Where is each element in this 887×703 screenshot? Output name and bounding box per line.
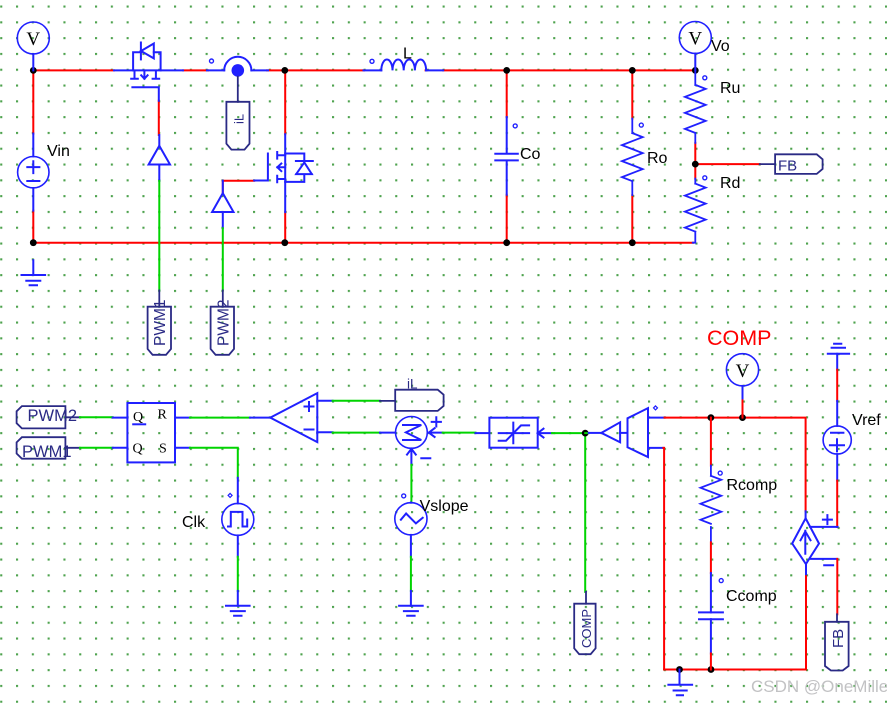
wire R to comparator green [190,417,250,419]
wire Vref upper red [836,370,838,401]
wire diamond minus to FB red [836,559,838,614]
wire bottom rail [33,242,693,244]
wire COMP rail red [665,418,806,512]
error amp trapezoid [628,408,665,457]
wire Q2 source red [284,212,286,243]
wire left rail Vin [32,70,34,243]
buffer triangle [589,422,628,442]
wire top rail red segments [33,69,695,71]
wire Q2 drain red [284,70,286,134]
svg-text:V: V [736,361,750,382]
wire junction to COMP tag green [584,433,586,592]
svg-text:PWM2: PWM2 [216,300,233,347]
mosfet Q1 [114,43,183,101]
resistor Rcomp [710,418,712,466]
comparator [250,393,333,442]
svg-text:R: R [158,408,168,423]
svg-text:FB: FB [778,158,797,175]
inductor L [364,59,444,70]
wire S to Clk green [190,448,238,478]
wire PWM2 green [222,228,224,290]
PWM2 tag horizontal [17,406,80,428]
wire comparator minus green [333,432,380,434]
svg-text:L: L [403,46,412,63]
svg-text:Ccomp: Ccomp [726,588,777,605]
node marker near sensor [210,59,214,63]
FB tag right [760,163,775,165]
wire Vref to diamond red [836,481,838,527]
svg-text:CSDN @OneMillet: CSDN @OneMillet [751,677,887,696]
svg-text:Q: Q [133,410,143,425]
ground under Vslope [399,591,423,616]
wire error amp lower red [662,448,665,670]
wire bottom rail right red [664,669,806,671]
svg-text:iL: iL [407,377,418,392]
wire Ro red leads [631,70,633,242]
junction node dots power stage [30,67,699,246]
COMP tag vertical [574,592,595,654]
FB tag bottom vertical [825,614,849,670]
voltmeter COMP [726,354,758,401]
wire comparator plus green [333,400,380,402]
junction nodes COMP rail [708,414,715,421]
wire Q2 gate red [223,181,254,193]
gate driver triangle T1 [149,135,170,181]
wire Vslope ground green [410,557,412,591]
ground flipped above Vref [828,344,849,370]
capacitor Co [495,117,518,195]
svg-text:COMP: COMP [579,609,594,648]
wire junction to buffer green [585,432,589,434]
dependent source diamond [792,511,837,576]
svg-text:V: V [26,29,40,50]
PWM1 tag vertical [148,290,171,354]
iL probe [226,77,249,150]
ground under Clk [226,591,250,616]
svg-text:Ru: Ru [720,80,740,97]
svg-text:Rcomp: Rcomp [727,477,778,494]
wire limiter green [552,432,585,434]
ground bottom right [668,670,692,696]
wire Ru-Rd FB node red [695,143,760,179]
svg-text:Vref: Vref [852,412,881,429]
wire Q1 gate red [158,101,160,135]
source Vslope [395,503,427,557]
svg-text:V: V [688,29,702,50]
mosfet Q2 [254,134,313,212]
limiter [476,418,553,448]
iL tag horizontal [380,390,444,411]
current sensor [207,57,268,71]
svg-text:COMP: COMP [707,326,772,350]
source Vref [823,401,851,481]
clock source Clk [222,478,254,557]
svg-text:S: S [159,442,167,457]
svg-text:Co: Co [520,146,541,163]
source Vin [18,134,49,211]
svg-text:Ro: Ro [647,150,668,167]
wire Co red leads [506,70,508,242]
wire Clk to ground green [237,557,239,591]
svg-text:Vo: Vo [711,38,730,55]
gate driver triangle T2 [212,181,233,229]
svg-text:Vslope: Vslope [420,498,469,515]
junction node limiter [582,430,589,437]
wire summer bottom green [410,465,412,503]
ground left [22,260,46,285]
svg-text:Rd: Rd [720,175,740,192]
wire diamond bottom red [805,576,807,669]
svg-text:PWM2: PWM2 [28,407,78,425]
resistor Ru [685,70,706,142]
wires flip-flop inputs green [80,417,113,448]
wire summer right green [443,432,476,434]
resistor Ro [622,119,643,196]
svg-text:FB: FB [830,629,847,648]
resistor Rd [685,179,706,243]
svg-text:PWM1: PWM1 [152,300,169,347]
svg-text:PWM1: PWM1 [22,443,72,461]
capacitor Ccomp [710,542,712,573]
PWM2 tag vertical [211,290,234,354]
wire PWM1 green [158,181,160,290]
svg-text:Clk: Clk [182,514,206,531]
summer [380,417,443,465]
svg-text:Vin: Vin [47,143,70,160]
PWM1 tag horizontal [17,437,80,459]
voltmeter Vo [679,22,711,71]
svg-text:Q: Q [133,442,143,457]
flip-flop U1 [113,403,190,462]
svg-text:iL: iL [232,114,247,124]
voltmeter V at Vin [17,22,49,70]
